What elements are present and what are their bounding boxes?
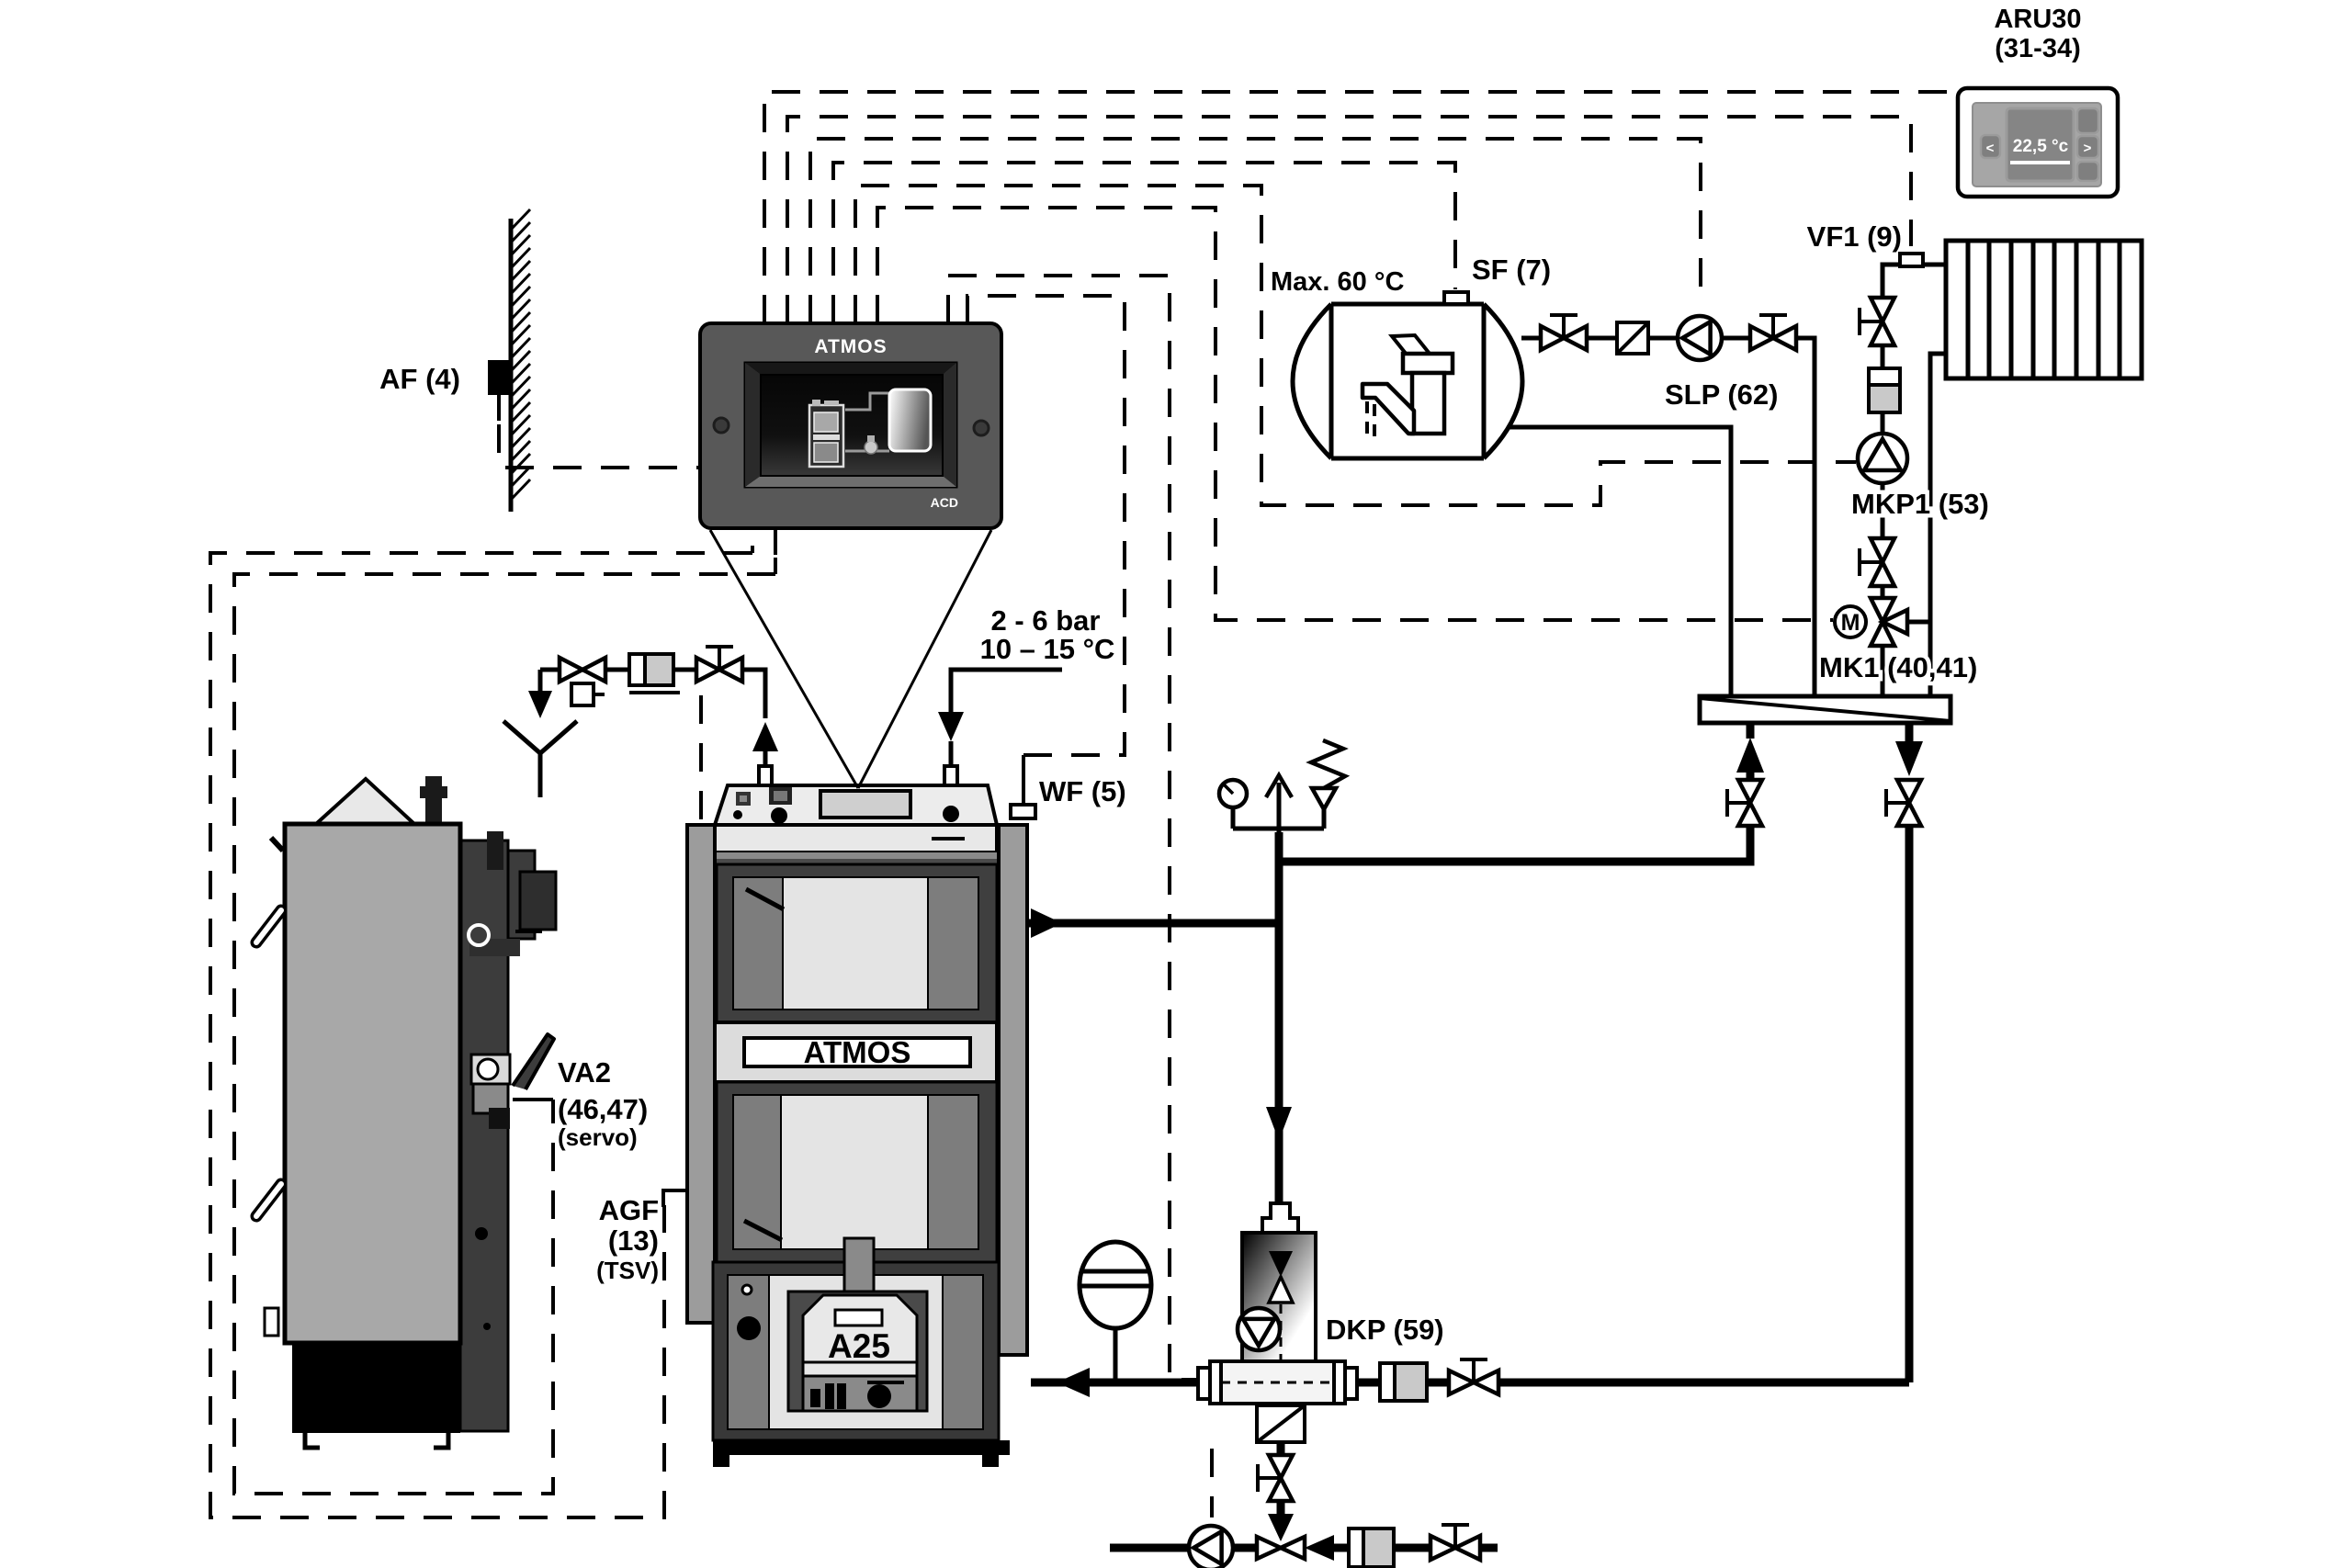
flow arrow left on fill line [1305, 1535, 1334, 1561]
pump MKP1 (53) [1858, 434, 1907, 483]
filter on return [1380, 1363, 1427, 1401]
svg-text:(TSV): (TSV) [596, 1257, 659, 1284]
svg-text:VA2: VA2 [558, 1056, 611, 1089]
pipe radiator supply [1883, 265, 1946, 298]
pipe [673, 668, 696, 672]
pipe radiator return [1930, 354, 1946, 696]
panel mini boiler icon [809, 405, 843, 467]
boiler 1 ATMOS band [715, 1022, 997, 1082]
svg-text:(31-34): (31-34) [1995, 34, 2081, 63]
svg-text:<: < [1986, 141, 1995, 156]
filter heating circuit [1869, 368, 1900, 412]
pipe distributor left riser (thick) [1747, 772, 1755, 780]
flow arrow down [1895, 741, 1923, 776]
boiler 1 trim strips [717, 852, 997, 859]
pump bottom circulation [1189, 1526, 1233, 1568]
flow arrow down to tee [1268, 1514, 1294, 1541]
svg-text:ARU30: ARU30 [1994, 5, 2081, 34]
valve below distributor right [1897, 780, 1921, 803]
burner A25 [788, 1292, 927, 1411]
svg-text:A25: A25 [828, 1327, 890, 1365]
svg-text:>: > [2084, 141, 2092, 156]
svg-text:22,5 °c: 22,5 °c [2013, 137, 2069, 156]
expansion vessel [1080, 1242, 1151, 1328]
pipe boiler supply (thick) [1027, 919, 1279, 928]
wire cable WF sensor to ACD panel [967, 296, 1125, 755]
sensor AF (4) [488, 360, 512, 395]
pipe DKP down to fill assembly (thick) [1277, 1442, 1285, 1455]
projection line left [710, 530, 858, 788]
valve safety blow-off [560, 658, 582, 682]
boiler 1 right jacket [999, 825, 1027, 1355]
svg-text:SF (7): SF (7) [1472, 254, 1551, 286]
svg-text:M: M [1841, 610, 1860, 636]
boiler 1 front top band [715, 825, 997, 852]
boiler 2 chimney stub [425, 776, 442, 826]
pipe tank bottom feed [1508, 427, 1731, 696]
boiler 2 body [285, 824, 460, 1343]
svg-text:(46,47): (46,47) [558, 1093, 648, 1125]
wire cable VA2 servo loop (inner dashed enclosure) [234, 558, 775, 1494]
svg-text:AF (4): AF (4) [379, 363, 460, 395]
tank SF (7) hot water [1331, 304, 1484, 458]
pipe into boiler top [742, 670, 765, 718]
pipe gauge manifold [1233, 829, 1324, 862]
radiator [1946, 241, 2142, 378]
valve DHW 1 [1541, 326, 1564, 350]
filter on safety line [629, 654, 673, 685]
wire cable ARU30 to ACD panel [764, 92, 1958, 323]
svg-text:MKP1 (53): MKP1 (53) [1851, 488, 1989, 520]
flow arrow up [1736, 738, 1764, 773]
valve bottom fill [1430, 1536, 1455, 1560]
boiler 1 left jacket [687, 825, 715, 1323]
mixing valve MK1 (40,41) three-way [1881, 647, 1885, 696]
valve on return [1449, 1371, 1474, 1394]
pipe return into boiler (thick) [1031, 1379, 1198, 1387]
svg-text:MK1 (40,41): MK1 (40,41) [1819, 651, 1977, 683]
boiler 2 rear flue column [460, 840, 508, 1431]
wall (hatched) [509, 219, 514, 512]
wire cable MKP1 pump to ACD panel [855, 186, 1856, 505]
wire cable SLP pump to ACD panel [810, 139, 1701, 323]
svg-text:10 – 15 °C: 10 – 15 °C [980, 633, 1115, 665]
svg-text:ATMOS: ATMOS [814, 336, 887, 357]
pipe safety discharge line [540, 670, 559, 691]
thermoregulator DKP (59) body [1262, 1203, 1298, 1233]
svg-text:ACD: ACD [931, 495, 958, 510]
funnel drain [503, 721, 577, 797]
wire cable ACD panel into boiler [699, 695, 703, 822]
valve below distributor left [1738, 780, 1762, 803]
wire cable MK1 mixing valve to ACD panel [877, 208, 1833, 620]
svg-text:SLP (62): SLP (62) [1665, 378, 1778, 411]
arrow up out of boiler [752, 722, 778, 751]
panel mini tank icon [889, 389, 931, 451]
filter DHW (square w/ diagonal) [1617, 322, 1648, 354]
wire cable AF outdoor sensor to ACD panel [499, 424, 700, 468]
svg-text:AGF: AGF [599, 1194, 659, 1226]
valve below MKP1 [1871, 538, 1894, 562]
svg-text:VF1 (9): VF1 (9) [1807, 220, 1902, 253]
pipe distributor right drop (thick) [1905, 724, 1914, 741]
projection line right [858, 530, 991, 788]
pipe supply to distributor (thick) [1279, 826, 1750, 862]
burner bracket [844, 1238, 874, 1293]
flow arrow down [1266, 1107, 1292, 1141]
pressure gauge [1231, 808, 1236, 829]
drain arrow [528, 691, 552, 718]
boiler 1 top lid [715, 785, 997, 825]
svg-text:WF (5): WF (5) [1039, 775, 1126, 807]
wire cable DKP pump to ACD panel [948, 276, 1238, 1380]
valve VA2 servo assembly [471, 1055, 510, 1084]
arrow down into boiler [938, 712, 964, 741]
wire cable SF sensor to ACD panel [833, 163, 1455, 323]
pipe DHW out [1521, 336, 1541, 341]
wire cable AGF flue sensor loop (outer dashed enclosure) [210, 546, 752, 1517]
valve DHW 2 [1750, 326, 1773, 350]
room unit ARU30 [1958, 88, 2118, 197]
sensor VF1 (9) [1900, 254, 1923, 266]
svg-text:DKP (59): DKP (59) [1326, 1314, 1444, 1346]
pipe cold water inlet [951, 670, 1062, 712]
svg-text:Max. 60 °C: Max. 60 °C [1271, 267, 1404, 297]
pipe heating return to DKP (thick) [1499, 1379, 1909, 1387]
distributor manifold [1700, 696, 1951, 723]
pipe riser junction (thick) [1275, 832, 1283, 1205]
boiler 2 dots [477, 1094, 486, 1103]
valve radiator supply [1871, 298, 1894, 321]
faucet icon [1392, 335, 1430, 355]
boiler 1 lower door [717, 1082, 997, 1262]
svg-text:(servo): (servo) [558, 1123, 638, 1151]
panel mini pipes [845, 393, 889, 451]
pipe DHW loop down to distributor [1796, 338, 1815, 696]
boiler 1 base [713, 1440, 1010, 1455]
svg-text:2 - 6 bar: 2 - 6 bar [991, 604, 1101, 637]
boiler 1 upper door [717, 864, 997, 1022]
boiler 2 roof [316, 779, 414, 824]
flow arrow left [1057, 1368, 1090, 1397]
pump SLP (62) [1678, 316, 1722, 360]
pump DKP (59) [1238, 1308, 1280, 1350]
pipe bottom fill line (thick) [1110, 1544, 1190, 1552]
DKP internal thermo valve [1269, 1251, 1293, 1277]
boiler 2 ash section [292, 1343, 460, 1433]
valve tee bottom [1257, 1537, 1281, 1559]
wire cable to bottom circulation pump [1210, 1449, 1214, 1517]
svg-text:(13): (13) [608, 1224, 659, 1257]
filter bottom fill [1349, 1529, 1394, 1567]
safety valve (spring) [1322, 809, 1327, 829]
boiler 1 burner section [713, 1262, 999, 1440]
svg-text:ATMOS: ATMOS [804, 1035, 911, 1069]
motor M of MK1 [1835, 606, 1866, 637]
vent arrow [1277, 783, 1282, 829]
pipe [605, 668, 629, 672]
boiler 2 door handles [256, 910, 281, 942]
flow arrow right [1031, 908, 1062, 938]
control panel ACD [700, 323, 1001, 528]
panel screen bezel [745, 363, 956, 487]
valve shut-off on boiler top [696, 658, 719, 682]
check valve DKP [1257, 1405, 1305, 1442]
sensor WF (5) [1011, 805, 1035, 818]
wire cable VF1 sensor to ACD panel [787, 117, 1911, 323]
valve fill line [1269, 1455, 1293, 1478]
